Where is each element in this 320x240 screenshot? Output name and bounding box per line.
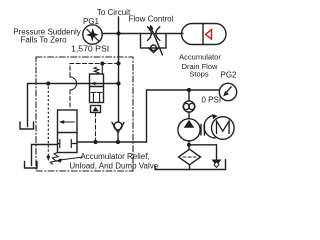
wire: branch left on main line [28,83,119,85]
svg-text:0 PSI: 0 PSI [202,96,222,105]
filter F1 [179,149,201,165]
node: junction check valve line [116,140,120,144]
wire: V1 right port / bottom drain line [77,141,147,143]
pilot drain dashed to bottom line [95,113,97,143]
valve V2 top cell flow path arrow [91,82,96,86]
wire: main pressure line PG1 to flow control [102,33,141,35]
pump P1 [178,119,200,141]
node: junction drain pilot [46,81,50,85]
accumulator shell [182,24,227,45]
wire: flow control to accumulator [166,33,183,35]
svg-text:Accumulator Relief,: Accumulator Relief, [80,152,149,161]
enclosure: accumulator relief unload dump valve boundary [36,57,133,171]
tank reservoir main [155,160,226,170]
tank T2 [25,162,38,169]
svg-text:PG2: PG2 [221,71,238,80]
drain arrow into tank [212,160,222,167]
node: junction pump outlet [187,88,191,92]
gauge PG1 [83,25,102,44]
accumulator gas triangle [206,30,212,40]
flow control bypass check [151,45,157,51]
pilot line: dashed pilot from junction to unload valve [70,64,119,78]
gauge PG2 [219,83,236,100]
check valve CV1 [114,122,122,130]
node: junction To Circuit [116,31,120,35]
valve V1: unload valve body [58,110,78,153]
svg-text:To Circuit: To Circuit [97,8,131,17]
wire: To Circuit drop line [118,17,120,34]
motor rotation arrow [204,115,215,138]
wire: case drain branch [189,145,217,160]
svg-text:Falls To Zero: Falls To Zero [20,36,67,45]
valve V2 spring [94,67,99,74]
node: junction pilot upper [116,61,120,65]
valve V1 bottom cell blocked ports [58,140,78,148]
valve V1 spring [50,153,58,165]
svg-text:Unload, And Dump Valve: Unload, And Dump Valve [69,162,158,171]
accumulator divider [202,24,204,45]
svg-text:1,570 PSI: 1,570 PSI [71,44,109,54]
pilot line: dotted drain line [47,87,49,157]
wire: pump suction [188,141,190,150]
wire hop over main line [70,77,77,90]
ball check at pump outlet [188,90,190,101]
wire: main vertical line into valve enclosure [118,34,120,122]
label leader arrow [60,157,83,160]
valve V2: pilot relief stage body [90,74,104,103]
valve V1 top cell arrow [63,121,75,123]
wire: V1 left port to tank T2 [32,145,58,166]
wire: drain line up to pump outlet line [147,90,220,142]
label: M motor letter [217,121,230,134]
motor shaft coupling [200,125,202,136]
svg-text:Accumulator: Accumulator [179,53,221,62]
node: junction drain box line [93,140,97,144]
valve V2 bottom cell blocked ports [91,93,102,103]
wire: drop to tank T1 [27,84,29,127]
svg-text:Flow Control: Flow Control [129,15,174,24]
node: junction main line [116,81,120,85]
flow control adjust arrow [151,28,162,55]
node: junction suction [187,143,191,147]
flow control metering arcs [148,27,152,41]
svg-text:PG1: PG1 [83,17,100,26]
tank T1 [20,122,34,129]
valve V2 drain box with triangle [91,106,101,113]
svg-text:Stops: Stops [189,70,208,79]
flow control valve body [141,34,167,49]
motor M1 [212,117,235,140]
valve V2 pilot stub [101,64,103,75]
